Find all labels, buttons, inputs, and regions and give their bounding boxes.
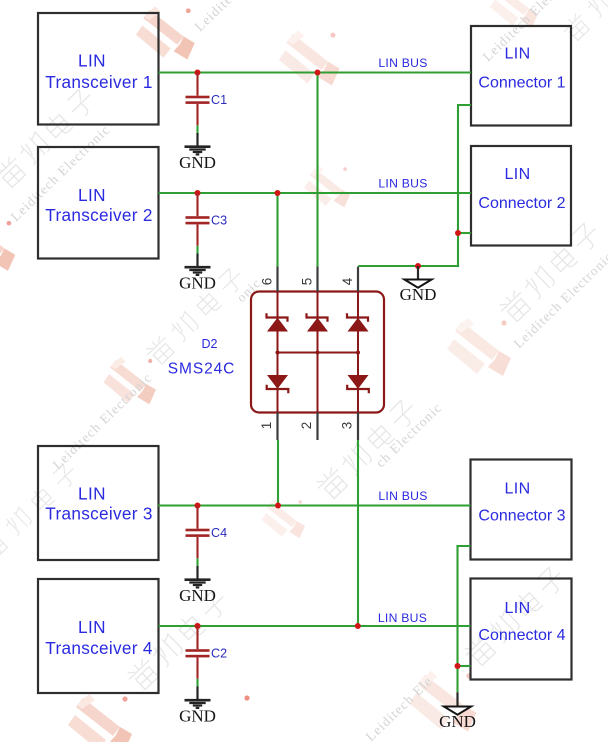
svg-text:SMS24C: SMS24C — [168, 361, 235, 378]
svg-text:6: 6 — [260, 278, 275, 286]
svg-text:LIN: LIN — [78, 51, 106, 71]
junction pin6 tap — [275, 190, 281, 196]
wire connector1 pin2 to trunk — [358, 105, 471, 266]
svg-text:Connector 2: Connector 2 — [478, 195, 565, 212]
svg-text:LIN: LIN — [504, 45, 530, 62]
capacitor C3 — [186, 193, 210, 246]
svg-text:LIN: LIN — [78, 484, 106, 504]
block LIN Connector 1 — [471, 26, 571, 126]
svg-text:LIN BUS: LIN BUS — [378, 489, 427, 503]
svg-text:Transceiver 3: Transceiver 3 — [45, 504, 152, 524]
D2 internal column 1 — [277, 292, 279, 413]
pin 1 stub — [276, 413, 278, 441]
junction connector2 pin2 — [455, 230, 461, 236]
junction C1 tap — [195, 70, 201, 76]
ground GND below C1 — [179, 133, 216, 172]
svg-text:3: 3 — [340, 422, 355, 430]
pin 3 stub — [357, 413, 359, 441]
svg-text:LIN: LIN — [504, 166, 530, 183]
wire C3 to ground — [196, 246, 198, 254]
svg-text:GND: GND — [400, 285, 437, 304]
svg-text:C2: C2 — [211, 646, 227, 660]
ground GND power port bottom — [439, 707, 476, 732]
svg-text:C1: C1 — [211, 93, 227, 107]
svg-text:5: 5 — [300, 278, 315, 286]
D2 rail node 1 — [276, 351, 280, 355]
capacitor C2 — [186, 626, 210, 679]
D2 internal column 3 — [357, 292, 359, 413]
svg-text:GND: GND — [179, 153, 216, 172]
zener diode top column 2 — [307, 313, 328, 331]
wire pin5 drop — [316, 73, 318, 267]
svg-text:1: 1 — [259, 422, 274, 430]
wire pin3 to LIN BUS 4 — [357, 440, 359, 626]
wire pin6 drop — [276, 193, 278, 267]
ground GND below C2 — [179, 687, 216, 726]
wire C2 to ground — [196, 679, 198, 687]
D2 rail node 3 — [356, 351, 360, 355]
junction C3 tap — [195, 190, 201, 196]
svg-text:LIN: LIN — [504, 481, 530, 498]
svg-text:Connector 3: Connector 3 — [478, 508, 565, 525]
ground GND below C4 — [179, 566, 216, 605]
pin 2 stub — [316, 413, 318, 441]
wire LIN BUS 2 — [159, 192, 472, 194]
wire connector2 pin2 stub — [458, 232, 471, 234]
svg-text:GND: GND — [179, 586, 216, 605]
pin 4 stub — [357, 267, 359, 292]
zener diode bottom column 3 — [347, 376, 369, 394]
junction pin1 tap — [275, 503, 281, 509]
block LIN Transceiver 4 — [38, 579, 159, 693]
zener diode bottom column 1 — [267, 376, 289, 394]
svg-text:Connector 4: Connector 4 — [478, 627, 565, 644]
svg-text:LIN BUS: LIN BUS — [378, 611, 427, 625]
svg-text:LIN: LIN — [78, 617, 106, 637]
svg-text:Leiditech El: Leiditech El — [192, 0, 260, 34]
block LIN Connector 2 — [471, 146, 571, 246]
junction C2 tap — [195, 623, 201, 629]
zener diode top column 1 — [267, 313, 288, 331]
svg-text:LIN BUS: LIN BUS — [378, 177, 427, 191]
block LIN Connector 4 — [471, 579, 572, 680]
D2 internal column 2 — [317, 292, 319, 413]
svg-text:2: 2 — [299, 422, 314, 430]
svg-text:GND: GND — [439, 712, 476, 731]
svg-text:D2: D2 — [202, 337, 218, 351]
capacitor C4 — [186, 506, 210, 559]
svg-text:C3: C3 — [211, 213, 227, 227]
D2 rail node 2 — [316, 351, 320, 355]
svg-text:LIN BUS: LIN BUS — [378, 56, 427, 70]
wire LIN BUS 1 — [159, 71, 472, 73]
svg-text:ch Electronic: ch Electronic — [373, 400, 445, 470]
junction C4 tap — [195, 503, 201, 509]
svg-text:Connector 1: Connector 1 — [478, 74, 565, 91]
block LIN Connector 3 — [471, 460, 572, 560]
svg-text:Transceiver 1: Transceiver 1 — [45, 72, 152, 92]
wire gnd drop top — [417, 266, 419, 280]
block LIN Transceiver 3 — [38, 446, 159, 560]
block LIN Transceiver 1 — [38, 13, 159, 125]
zener diode top column 3 — [347, 313, 368, 331]
pin 6 stub — [276, 267, 278, 292]
pin 5 stub — [316, 267, 318, 292]
junction pin3 tap — [355, 623, 361, 629]
svg-text:Transceiver 4: Transceiver 4 — [45, 638, 153, 658]
wire C4 to ground — [196, 558, 198, 566]
wire LIN BUS 3 — [158, 504, 471, 506]
junction pin5 tap — [315, 70, 321, 76]
wire connector4 pin2 stub — [458, 665, 471, 667]
block LIN Transceiver 2 — [38, 147, 159, 259]
wire gnd drop bottom — [456, 692, 458, 706]
wire LIN BUS 4 — [159, 625, 471, 627]
capacitor C1 — [186, 73, 210, 126]
wire C1 to ground — [196, 125, 198, 133]
tvs diode array D2 body — [251, 292, 384, 413]
svg-text:Leiditech Electronic: Leiditech Electronic — [511, 249, 608, 351]
D2 internal rail — [278, 352, 359, 354]
svg-text:GND: GND — [179, 274, 216, 293]
ground GND power port top — [400, 280, 437, 305]
wire connector3 pin2 to gnd trunk — [458, 546, 471, 692]
wire pin1 to LIN BUS 3 — [277, 440, 279, 506]
junction gnd tap top — [415, 263, 421, 269]
ground GND below C3 — [179, 254, 216, 293]
junction connector4 pin2 — [455, 663, 461, 669]
svg-text:Transceiver 2: Transceiver 2 — [45, 205, 152, 225]
svg-text:LIN: LIN — [78, 185, 106, 205]
svg-text:4: 4 — [340, 277, 355, 285]
svg-text:LIN: LIN — [504, 600, 530, 617]
svg-text:GND: GND — [179, 707, 216, 726]
svg-text:C4: C4 — [211, 526, 227, 540]
